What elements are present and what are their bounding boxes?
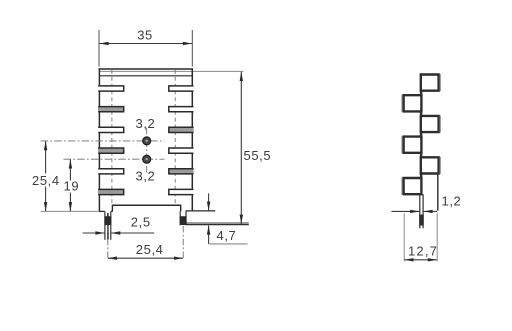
svg-text:3,2: 3,2 [136, 116, 156, 131]
svg-text:1,2: 1,2 [442, 194, 462, 209]
wire: baseline grey upper [186, 222, 249, 224]
wire: meander connector 4-5 [420, 153, 422, 158]
dimension 1,2: left arrow [392, 210, 420, 213]
wire: meander connector 3-4 [420, 132, 422, 137]
dimension 25,4 left: extension line bottom [41, 210, 99, 212]
dimension 19: line and arrows [69, 159, 72, 211]
dimension 25,4 bottom: line and arrows [108, 257, 183, 260]
slot R4 (white) [169, 148, 194, 153]
side view meander: square 3 (right) [421, 116, 439, 132]
dimension 25,4 left: line and arrows [44, 141, 47, 211]
dimension 4,7: upper arrow pointing down [207, 193, 210, 210]
wire: meander outer edge doubling [402, 74, 440, 195]
dimension 4,7: lower arrow pointing up with leader [207, 225, 248, 244]
wire: hidden dashed line right [174, 70, 176, 205]
wire: 55,5 extension line (grey, under top edge) [99, 70, 244, 72]
dimension 55,5: line and arrows [240, 72, 243, 224]
wire: bottom left step vertical [111, 205, 113, 212]
svg-text:19: 19 [64, 179, 80, 194]
dimension 25,4 bottom: extension centerline left pin [107, 226, 109, 260]
wire: ledge between left pin and step [111, 210, 113, 212]
slot L1 (white) [98, 86, 124, 91]
node: hole1 horizontal centerline [41, 140, 165, 142]
label 25,4 left [31, 173, 60, 188]
slot R3 (grey) [169, 127, 194, 132]
wire: baseline dark [186, 223, 249, 225]
node: hole2 horizontal centerline [64, 158, 165, 160]
side view stem (sheet below last fold) [419, 194, 423, 228]
pin left (solder pin, front view) [104, 211, 111, 239]
slot R5 (grey) [169, 169, 194, 174]
wire: front view second top fold line [99, 75, 192, 77]
hole 1 (3,2 dia) [143, 137, 151, 145]
side view meander: square 5 (right) [421, 157, 439, 173]
pin right (solder pin, front view) [180, 211, 187, 225]
svg-text:4,7: 4,7 [217, 228, 237, 243]
side view meander: square 2 (left) [404, 95, 422, 111]
slot R1 (white) [169, 86, 194, 91]
dimension 12,7: left extension line [403, 213, 405, 261]
wire: meander connector 1-2 [420, 91, 422, 96]
wire: front view body top edge [99, 68, 193, 70]
svg-text:55,5: 55,5 [244, 148, 272, 163]
dimension 12,7: right extension line [436, 213, 438, 262]
hole 2 (3,2 dia) [143, 155, 151, 163]
wire: front body bottom edge (middle) [112, 204, 180, 206]
dimension 1,2: right arrow [423, 210, 437, 213]
dimension 2,5: left arrow [83, 231, 105, 234]
slot L3 (white) [98, 127, 124, 132]
dimension 35: line and arrows [99, 42, 192, 45]
wire: bottom right step vertical [180, 205, 182, 212]
svg-text:35: 35 [137, 28, 153, 43]
svg-text:12,7: 12,7 [408, 244, 438, 259]
svg-text:2,5: 2,5 [131, 214, 151, 229]
svg-text:25,4: 25,4 [136, 242, 164, 257]
wire: flange top edge right [186, 210, 216, 212]
svg-text:3,2: 3,2 [136, 169, 156, 184]
wire: front body left edge [98, 69, 100, 212]
slot L2 (grey) [98, 107, 124, 112]
wire: side view right base edge [437, 174, 439, 211]
dimension 25,4 bottom: extension centerline right pin [182, 226, 184, 260]
wire: front body right edge [191, 69, 193, 211]
slot R2 (white) [169, 107, 194, 112]
label 19 [63, 179, 79, 194]
wire: meander connector 5-6 [420, 174, 422, 179]
wire: bottom left small ledge [99, 210, 105, 212]
side view meander: square 1 (right) [421, 75, 439, 91]
slot L6 (grey) [98, 189, 124, 194]
side view meander: square 4 (left) [404, 137, 422, 153]
dimension 35: extension lines [98, 30, 100, 67]
dimension 2,5: right arrow with leader [111, 231, 154, 234]
side view meander: square 6 (left) [404, 178, 422, 194]
dimension 12,7: line and arrows [404, 258, 437, 261]
node: holes vertical centerline [146, 128, 148, 173]
slot L5 (white) [98, 169, 124, 174]
wire: hidden dashed line left [111, 70, 113, 205]
wire: meander connector 2-3 [420, 111, 422, 116]
svg-text:25,4: 25,4 [32, 173, 60, 188]
slot R6 (white) [169, 189, 194, 194]
slot L4 (grey) [98, 148, 124, 153]
